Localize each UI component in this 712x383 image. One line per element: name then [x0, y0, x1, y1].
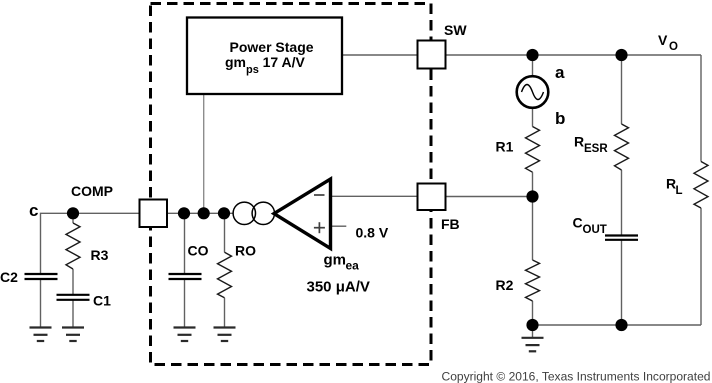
plus input sign — [314, 227, 325, 229]
wire: power stage output to SW pin — [342, 54, 418, 56]
junction node COUT bottom — [615, 319, 627, 331]
svg-text:FB: FB — [441, 216, 460, 232]
svg-text:a: a — [555, 63, 565, 82]
svg-text:R: R — [574, 133, 584, 149]
capacitor C1 — [57, 294, 90, 296]
ground below CO — [174, 328, 196, 342]
ground below C2 — [30, 328, 52, 342]
junction node FB — [526, 190, 538, 202]
wire: error amp plus input stub to 0.8 V — [331, 225, 346, 227]
junction node at R3/COMP — [67, 207, 79, 219]
wire: VO node down to AC source — [532, 55, 534, 77]
wire: RL branch top — [700, 55, 702, 162]
wire: RL to bottom rail — [700, 208, 702, 325]
wire: CO branch stub — [184, 213, 186, 273]
svg-text:SW: SW — [444, 22, 467, 38]
svg-text:Power Stage: Power Stage — [230, 39, 314, 55]
svg-text:L: L — [676, 185, 683, 197]
svg-text:0.8 V: 0.8 V — [356, 224, 389, 240]
junction node CO — [178, 207, 190, 219]
wire: COMP node horizontal (c corner to COMP pin) — [41, 213, 140, 273]
wire: COMP pin to error amp input row — [167, 212, 274, 214]
svg-text:gm: gm — [225, 54, 246, 70]
svg-text:ea: ea — [346, 259, 360, 273]
wire: FB pin to divider node — [446, 196, 533, 198]
svg-text:b: b — [555, 109, 565, 128]
svg-text:c: c — [29, 201, 38, 220]
ground below R2 — [522, 338, 544, 352]
wire: RO to ground — [224, 298, 226, 328]
IC boundary dashed box — [151, 4, 432, 365]
svg-text:17 A/V: 17 A/V — [263, 54, 306, 70]
junction node power stage — [198, 207, 210, 219]
svg-text:R2: R2 — [496, 277, 514, 293]
wire: COUT to bottom rail — [621, 240, 623, 325]
svg-text:COMP: COMP — [71, 183, 113, 199]
svg-text:gm: gm — [324, 252, 347, 269]
junction node SW rail — [526, 49, 538, 61]
wire: bottom rail — [533, 324, 702, 326]
current source circles of gm amp — [233, 202, 255, 224]
wire: SW pin to VO rail — [446, 54, 702, 56]
op-amp gm error amplifier triangle — [274, 179, 331, 249]
svg-text:C: C — [573, 215, 583, 231]
junction node RESR rail — [615, 49, 627, 61]
svg-text:OUT: OUT — [583, 224, 607, 236]
svg-text:RO: RO — [235, 243, 256, 259]
wire: C1 to ground — [72, 300, 74, 328]
capacitor CO — [169, 273, 202, 275]
wire: bottom node to ground — [532, 325, 534, 338]
ground below RO — [214, 328, 236, 342]
wire: FB node to R2 — [532, 197, 534, 261]
resistor RESR — [615, 124, 629, 170]
capacitor COUT — [605, 234, 638, 236]
wire: R3 branch stub — [72, 213, 74, 223]
wire: CO to ground — [184, 279, 186, 328]
svg-text:350 μA/V: 350 μA/V — [307, 279, 370, 296]
svg-text:ESR: ESR — [584, 143, 608, 155]
svg-text:R1: R1 — [496, 139, 514, 155]
wire: error amp minus input to FB pin — [331, 195, 418, 197]
svg-text:CO: CO — [188, 243, 209, 259]
wire: R2 to bottom rail — [532, 301, 534, 325]
wire: RO branch stub — [224, 213, 226, 252]
pin FB — [418, 184, 446, 211]
wire: AC source to R1 — [532, 108, 534, 127]
svg-text:V: V — [658, 32, 668, 48]
svg-text:R3: R3 — [91, 247, 109, 263]
pin COMP — [140, 200, 168, 228]
wire: RESR to COUT — [621, 170, 623, 236]
wire: R1 to FB node — [532, 172, 534, 196]
resistor R2 — [526, 260, 540, 301]
wire: C2 to ground — [40, 279, 42, 328]
pin SW — [418, 41, 446, 69]
minus input sign — [314, 194, 325, 196]
resistor R1 — [526, 127, 540, 173]
svg-text:C1: C1 — [93, 293, 111, 309]
block Power Stage — [187, 18, 342, 95]
junction node RO — [218, 207, 230, 219]
svg-text:ps: ps — [246, 64, 259, 76]
wire: R3 to C1 — [72, 269, 74, 295]
svg-text:C2: C2 — [0, 269, 18, 285]
AC source injection — [517, 76, 549, 108]
ground below C1 — [62, 328, 84, 342]
svg-text:O: O — [669, 41, 678, 53]
resistor R3 — [66, 223, 80, 269]
resistor RO — [218, 252, 232, 297]
resistor RL — [694, 162, 708, 209]
wire: power stage down to node row — [203, 94, 205, 213]
capacitor C2 — [25, 273, 58, 275]
junction node bottom rail — [526, 319, 538, 331]
svg-text:Copyright © 2016, Texas Instru: Copyright © 2016, Texas Instruments Inco… — [442, 369, 711, 383]
wire: RESR branch stub — [621, 55, 623, 124]
